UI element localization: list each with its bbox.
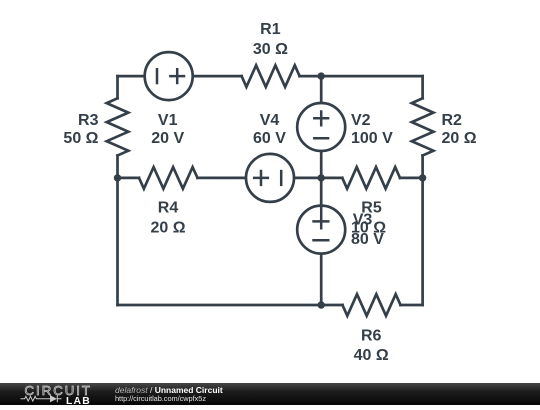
svg-text:V2: V2 — [351, 112, 371, 129]
svg-text:R4: R4 — [158, 200, 179, 217]
svg-text:R1: R1 — [260, 21, 281, 38]
svg-text:40 Ω: 40 Ω — [354, 347, 389, 364]
svg-text:20 V: 20 V — [151, 130, 184, 147]
svg-text:60 V: 60 V — [253, 130, 286, 147]
svg-text:V4: V4 — [260, 112, 280, 129]
svg-text:80 V: 80 V — [351, 231, 384, 248]
svg-text:30 Ω: 30 Ω — [253, 41, 288, 58]
svg-text:R3: R3 — [78, 112, 99, 129]
svg-text:20 Ω: 20 Ω — [150, 220, 185, 237]
svg-text:LAB: LAB — [66, 396, 91, 405]
svg-text:R2: R2 — [442, 112, 463, 129]
svg-text:R6: R6 — [361, 328, 382, 345]
svg-text:V3: V3 — [353, 211, 373, 228]
svg-text:20 Ω: 20 Ω — [442, 130, 477, 147]
svg-text:100 V: 100 V — [351, 130, 393, 147]
svg-text:50 Ω: 50 Ω — [63, 130, 98, 147]
svg-text:V1: V1 — [158, 112, 178, 129]
